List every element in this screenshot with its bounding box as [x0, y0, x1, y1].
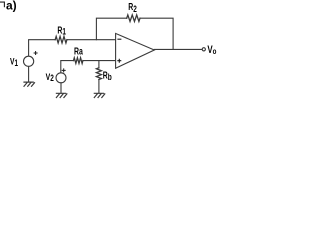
figure label a) with cropped mark [0, 2, 4, 7]
op-amp U1 [116, 33, 155, 68]
wire V1 bottom lead [28, 66, 30, 82]
svg-text:a): a) [6, 0, 17, 13]
V2 polarity plus sign [62, 68, 66, 72]
svg-text:R2: R2 [128, 1, 137, 15]
wire Ra rail left segment (V2 to Ra) [61, 61, 74, 73]
wire Rb bottom lead [98, 80, 100, 94]
op-amp minus input sign [117, 38, 121, 40]
voltage source V2 [56, 73, 66, 83]
op-amp plus input sign [117, 59, 121, 63]
wire mid rail left segment (V1 to R1) [29, 40, 56, 56]
resistor Ra [74, 58, 83, 64]
ground below V1 [24, 82, 35, 86]
svg-text:Ra: Ra [74, 45, 83, 57]
V1 polarity plus sign [34, 51, 38, 55]
wire V2 bottom lead [60, 83, 62, 93]
wire op-amp output [154, 48, 202, 50]
ground below V2 [56, 93, 67, 97]
node Vo terminal [202, 48, 205, 51]
voltage source V1 [24, 56, 34, 66]
svg-text:Vo: Vo [207, 44, 216, 57]
svg-text:V2: V2 [46, 71, 55, 83]
wire top rail right segment [140, 18, 173, 49]
svg-text:V1: V1 [10, 57, 19, 69]
resistor R2 [127, 15, 140, 22]
resistor R1 [55, 36, 67, 43]
svg-text:Rb: Rb [103, 69, 112, 82]
ground below Rb [94, 93, 105, 97]
wire mid rail right segment (R1 to op-amp inverting input) [67, 39, 116, 41]
wire top rail left segment (R2 feedback rail) [96, 18, 126, 40]
svg-text:R1: R1 [57, 24, 66, 37]
resistor Rb [96, 68, 101, 80]
wire Ra rail right segment (to op-amp non-inverting input) [83, 60, 116, 62]
wire Rb top lead (junction on Ra rail) [98, 61, 100, 68]
